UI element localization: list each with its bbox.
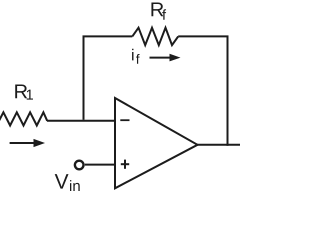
label Rf: [151, 3, 166, 20]
wire feedback right vertical: [227, 36, 229, 145]
resistor R1: [0, 112, 47, 125]
op-amp inverting input marker: [120, 119, 129, 121]
resistor Rf: [132, 28, 178, 45]
label Vin: [55, 174, 80, 191]
current arrow i1: [10, 139, 45, 147]
wire feedback top right: [178, 35, 228, 37]
op-amp non-inverting input marker: [121, 160, 129, 169]
wire feedback left vertical: [83, 36, 85, 119]
wire output: [197, 144, 241, 146]
label if: [132, 49, 140, 64]
input terminal Vin: [75, 161, 84, 170]
wire non-inverting input: [85, 164, 116, 166]
op-amp U1: [115, 98, 198, 188]
label R1: [15, 85, 33, 100]
current arrow if: [150, 54, 181, 62]
wire inverting input: [47, 120, 115, 122]
wire feedback top left: [83, 35, 133, 37]
